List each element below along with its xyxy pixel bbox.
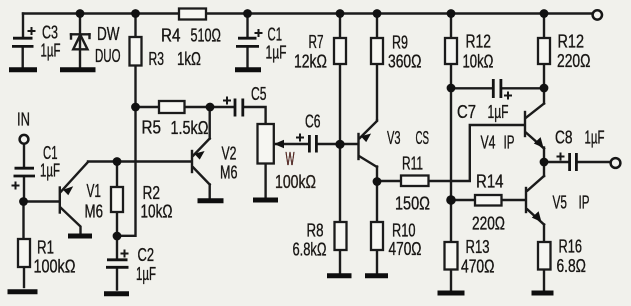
svg-text:12kΩ: 12kΩ [294,52,327,72]
svg-text:470Ω: 470Ω [461,257,495,277]
svg-text:R8: R8 [307,221,324,241]
svg-text:6.8Ω: 6.8Ω [557,256,587,276]
svg-text:R4: R4 [161,26,181,46]
svg-text:220Ω: 220Ω [472,214,505,234]
svg-text:R12: R12 [466,32,492,52]
svg-text:V2: V2 [222,144,237,164]
svg-text:V3: V3 [387,128,401,148]
svg-text:R14: R14 [476,172,504,192]
svg-text:360Ω: 360Ω [388,52,422,72]
svg-text:M6: M6 [85,202,104,222]
svg-text:R13: R13 [466,237,490,257]
svg-text:R3: R3 [149,49,165,69]
svg-text:R12: R12 [558,32,585,52]
svg-text:C7: C7 [457,102,476,122]
svg-text:IP: IP [504,133,515,153]
svg-text:W: W [286,149,295,169]
svg-text:R16: R16 [559,237,583,257]
svg-text:M6: M6 [220,163,238,183]
svg-text:R5: R5 [142,118,162,138]
svg-text:1µF: 1µF [266,43,287,63]
svg-text:CS: CS [416,128,430,148]
svg-text:V5: V5 [553,193,568,213]
svg-text:1µF: 1µF [585,128,605,148]
svg-text:DW: DW [97,24,120,44]
svg-text:R11: R11 [402,154,423,174]
svg-text:R7: R7 [309,32,324,52]
svg-text:470Ω: 470Ω [389,239,422,259]
svg-text:510Ω: 510Ω [191,26,222,46]
svg-text:R2: R2 [143,183,161,203]
svg-text:150Ω: 150Ω [395,194,430,214]
svg-text:IP: IP [579,193,590,213]
svg-text:1µF: 1µF [488,102,509,122]
svg-text:C6: C6 [305,112,321,132]
svg-text:V1: V1 [87,181,102,201]
svg-text:C5: C5 [251,84,267,104]
svg-text:10kΩ: 10kΩ [463,52,494,72]
svg-text:C8: C8 [555,128,573,148]
svg-text:1µF: 1µF [40,161,60,181]
svg-text:C2: C2 [138,245,155,265]
svg-text:V4: V4 [481,133,496,153]
svg-text:1.5kΩ: 1.5kΩ [171,118,209,138]
svg-text:C1: C1 [268,25,283,45]
svg-text:220Ω: 220Ω [557,51,591,71]
svg-text:R10: R10 [392,221,416,241]
svg-text:6.8kΩ: 6.8kΩ [293,240,327,260]
svg-text:1µF: 1µF [41,41,61,61]
svg-text:DUO: DUO [95,46,121,66]
svg-text:1µF: 1µF [136,264,156,284]
svg-text:R9: R9 [392,33,408,53]
svg-text:100kΩ: 100kΩ [275,172,316,192]
svg-text:10kΩ: 10kΩ [141,202,173,222]
svg-text:IN: IN [17,110,30,130]
svg-text:100kΩ: 100kΩ [34,257,76,277]
svg-text:1kΩ: 1kΩ [177,49,201,69]
svg-text:R1: R1 [37,238,54,258]
svg-text:C3: C3 [42,23,58,43]
